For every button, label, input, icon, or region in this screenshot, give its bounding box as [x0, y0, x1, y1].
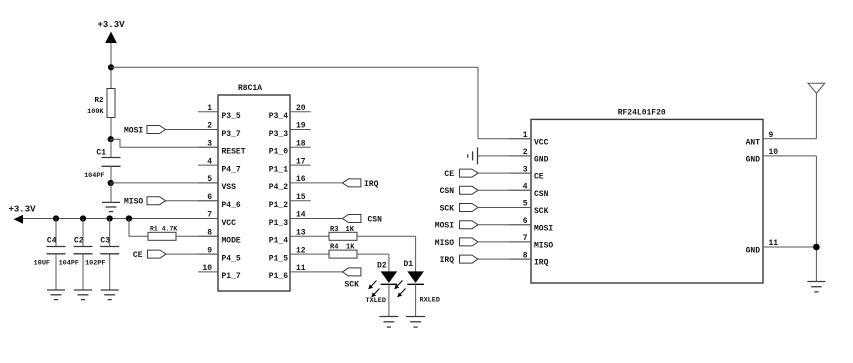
pin 6 MOSI — [509, 224, 531, 226]
svg-text:GND: GND — [746, 156, 761, 165]
connector IRQ (MCU side) — [342, 179, 361, 187]
svg-text:SCK: SCK — [440, 204, 455, 213]
svg-text:GND: GND — [534, 156, 549, 165]
svg-text:9: 9 — [207, 246, 212, 255]
wire CSN net from pin 14 — [311, 218, 343, 220]
svg-text:RF24L01F20: RF24L01F20 — [618, 108, 666, 117]
svg-text:104PF: 104PF — [59, 260, 79, 268]
svg-text:18: 18 — [296, 140, 306, 149]
svg-text:P3_4: P3_4 — [269, 112, 288, 121]
pin 20 P3_4 — [290, 111, 311, 113]
node rail-C4 — [53, 215, 59, 221]
node rail-C2 — [80, 215, 86, 221]
resistor R1 4.7K — [129, 219, 148, 237]
wire R3 to LED D1 — [357, 235, 416, 237]
svg-text:MOSI: MOSI — [534, 224, 553, 233]
svg-text:9: 9 — [769, 131, 774, 140]
svg-text:P4_7: P4_7 — [222, 165, 241, 174]
svg-text:CSN: CSN — [440, 187, 455, 196]
svg-text:10: 10 — [202, 264, 212, 273]
pin 14 P1_3 — [290, 218, 311, 220]
svg-text:P1_3: P1_3 — [269, 219, 288, 228]
wire SCK to RF pin 5 — [478, 207, 531, 209]
svg-text:MISO: MISO — [435, 239, 454, 248]
pin 18 P1_0 — [290, 146, 311, 148]
ground under C4 — [47, 289, 65, 291]
svg-text:3: 3 — [207, 140, 212, 149]
pin 2 GND — [509, 155, 531, 157]
svg-text:CSN: CSN — [368, 216, 383, 225]
node rail-R1 — [126, 215, 132, 221]
wire SCK net from pin 11 — [311, 271, 343, 273]
svg-text:+3.3V: +3.3V — [9, 204, 37, 214]
pin 1 VCC — [509, 138, 531, 140]
svg-text:10UF: 10UF — [34, 260, 50, 268]
wire MISO to pin 6 — [166, 200, 219, 202]
svg-text:P1_2: P1_2 — [269, 201, 288, 210]
svg-text:17: 17 — [296, 157, 306, 166]
svg-text:1: 1 — [207, 104, 212, 113]
svg-text:C2: C2 — [74, 237, 84, 246]
IC U1 R8C1A body — [218, 95, 290, 291]
node rail-C3 — [107, 215, 113, 221]
wire RESET to pin 3 — [111, 139, 218, 147]
svg-text:MODE: MODE — [222, 237, 241, 246]
svg-text:P4_6: P4_6 — [222, 201, 241, 210]
wire top rail to RF VCC — [111, 66, 478, 68]
svg-text:P1_7: P1_7 — [222, 272, 241, 281]
svg-text:IRQ: IRQ — [440, 256, 455, 265]
svg-text:MOSI: MOSI — [124, 126, 143, 135]
svg-text:P4_5: P4_5 — [222, 254, 241, 263]
svg-text:IRQ: IRQ — [364, 180, 379, 189]
pin 4 P4_7 — [198, 164, 218, 166]
svg-text:100K: 100K — [87, 108, 104, 116]
svg-text:C3: C3 — [100, 237, 110, 246]
svg-text:15: 15 — [296, 193, 306, 202]
svg-text:16: 16 — [296, 175, 306, 184]
svg-text:C1: C1 — [96, 149, 106, 158]
resistor R4 1K — [311, 253, 329, 255]
svg-text:GND: GND — [746, 247, 761, 256]
svg-text:CE: CE — [534, 173, 544, 182]
ground under D1 — [406, 316, 425, 318]
pin 7 MISO — [509, 241, 531, 243]
wire CE to pin 9 — [166, 253, 218, 255]
svg-text:RESET: RESET — [222, 148, 246, 157]
svg-text:10: 10 — [769, 148, 779, 157]
svg-text:MOSI: MOSI — [435, 222, 454, 231]
pin 6 P4_6 — [198, 200, 218, 202]
svg-text:VSS: VSS — [222, 183, 237, 192]
wire R4 to LED D2 — [357, 253, 389, 255]
connector SCK (MCU side) — [342, 268, 361, 276]
LED D1 emission arrows — [395, 281, 403, 290]
pin 12 P1_5 — [290, 253, 311, 255]
wire R1 to MODE pin 8 — [176, 235, 218, 237]
node R2/C1/RESET junction — [108, 136, 114, 142]
svg-text:11: 11 — [769, 239, 779, 248]
pin 11 GND — [763, 246, 816, 248]
svg-text:R2: R2 — [94, 97, 104, 105]
svg-text:CSN: CSN — [534, 190, 549, 199]
wire to antenna — [815, 93, 817, 139]
svg-text:102PF: 102PF — [85, 260, 105, 268]
svg-text:CE: CE — [444, 170, 454, 179]
svg-text:P3_3: P3_3 — [269, 130, 288, 139]
pin 10 P1_7 — [198, 271, 218, 273]
svg-text:19: 19 — [296, 122, 306, 131]
pin 1 P3_5 — [198, 111, 218, 113]
pin 8 IRQ — [509, 258, 531, 260]
LED D2 emission arrows — [369, 281, 377, 290]
pin 9 ANT — [763, 138, 816, 140]
svg-text:C4: C4 — [47, 237, 57, 246]
pin 9 P4_5 — [198, 253, 218, 255]
wire MOSI to pin 2 — [166, 129, 219, 131]
resistor R3 1K — [311, 235, 329, 237]
svg-text:1: 1 — [523, 131, 528, 140]
svg-text:12: 12 — [296, 246, 306, 255]
pin 8 MODE — [198, 235, 218, 237]
svg-text:7: 7 — [207, 211, 212, 220]
wire IRQ to RF pin 8 — [478, 258, 531, 260]
pin 19 P3_3 — [290, 129, 311, 131]
wire GND down — [815, 156, 817, 282]
ground under D2 — [379, 316, 398, 318]
pin 15 P1_2 — [290, 200, 311, 202]
ground under C2 — [74, 289, 92, 291]
svg-text:13: 13 — [296, 229, 306, 238]
pin 13 P1_4 — [290, 235, 311, 237]
resistor R2 — [107, 89, 115, 118]
svg-text:P1_4: P1_4 — [269, 237, 288, 246]
wire VSS pin 5 — [111, 182, 218, 184]
node VCC-top junction — [108, 64, 114, 70]
svg-text:VCC: VCC — [534, 138, 549, 147]
wire MISO to RF pin 7 — [478, 241, 531, 243]
svg-text:RXLED: RXLED — [420, 297, 440, 305]
node C1/VSS junction — [108, 180, 114, 186]
svg-text:SCK: SCK — [345, 281, 360, 290]
svg-text:6: 6 — [207, 193, 212, 202]
ground under C1 — [102, 201, 120, 203]
wire MOSI to RF pin 6 — [478, 224, 531, 226]
svg-text:20: 20 — [296, 104, 306, 113]
svg-text:2: 2 — [207, 122, 212, 131]
svg-text:R8C1A: R8C1A — [238, 84, 262, 93]
svg-text:+3.3V: +3.3V — [98, 20, 126, 30]
svg-text:5: 5 — [207, 175, 212, 184]
svg-text:P3_5: P3_5 — [222, 112, 241, 121]
pin 5 VSS — [198, 182, 218, 184]
wire CE to RF pin 3 — [478, 172, 531, 174]
wire IRQ net from pin 16 — [311, 182, 343, 184]
pin 3 CE — [509, 172, 531, 174]
svg-text:SCK: SCK — [534, 207, 549, 216]
svg-text:P1_0: P1_0 — [269, 148, 288, 157]
svg-text:CE: CE — [133, 251, 143, 260]
svg-text:14: 14 — [296, 211, 306, 220]
svg-text:D2: D2 — [377, 262, 387, 271]
pin 16 P4_2 — [290, 182, 311, 184]
svg-text:P4_2: P4_2 — [269, 183, 288, 192]
pin 10 GND — [763, 155, 816, 157]
IC U2 RF24L01F20 body — [531, 119, 763, 283]
svg-text:ANT: ANT — [746, 138, 761, 147]
svg-text:11: 11 — [296, 264, 306, 273]
svg-text:4: 4 — [207, 157, 212, 166]
antenna E1 — [808, 83, 825, 93]
svg-text:VCC: VCC — [222, 219, 237, 228]
svg-text:R1 4.7K: R1 4.7K — [150, 226, 177, 233]
pin 17 P1_1 — [290, 164, 311, 166]
svg-text:P1_1: P1_1 — [269, 165, 288, 174]
ground under C3 — [101, 289, 119, 291]
svg-text:P1_5: P1_5 — [269, 254, 288, 263]
svg-text:IRQ: IRQ — [534, 259, 549, 268]
svg-text:104PF: 104PF — [84, 172, 104, 180]
wire CSN to RF pin 4 — [478, 189, 531, 191]
svg-text:TXLED: TXLED — [366, 297, 386, 305]
svg-text:MISO: MISO — [124, 198, 143, 207]
pin 7 VCC — [198, 218, 218, 220]
pin 3 RESET — [198, 146, 218, 148]
svg-text:D1: D1 — [404, 260, 414, 269]
wire +3.3V rail to VCC pin 7 — [23, 218, 218, 220]
ground at RF pin 2 — [478, 155, 532, 157]
connector CSN (MCU side) — [342, 215, 361, 223]
svg-text:MISO: MISO — [534, 242, 553, 251]
pin 4 CSN — [509, 189, 531, 191]
ground at RF right — [807, 281, 825, 283]
pin 2 P3_7 — [198, 129, 218, 131]
pin 11 P1_6 — [290, 271, 311, 273]
pin 5 SCK — [509, 207, 531, 209]
svg-text:8: 8 — [207, 229, 212, 238]
svg-text:P1_6: P1_6 — [269, 272, 288, 281]
node GND junction — [813, 244, 820, 251]
svg-text:P3_7: P3_7 — [222, 130, 241, 139]
